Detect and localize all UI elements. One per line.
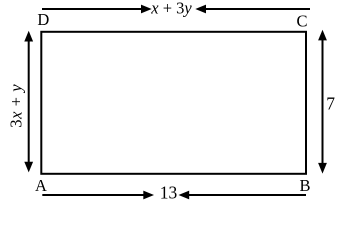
right dimension arrow shaft — [322, 37, 324, 165]
bottom dimension right arrow shaft — [189, 194, 306, 196]
svg-text:C: C — [296, 11, 307, 30]
left dimension arrow shaft — [28, 38, 30, 164]
svg-text:x + 3y: x + 3y — [150, 0, 192, 17]
svg-text:B: B — [299, 176, 310, 195]
bottom dimension left arrow shaft — [42, 194, 145, 196]
bottom dimension right arrowhead (points left) — [179, 191, 190, 200]
top dimension right arrow shaft — [205, 8, 310, 10]
top dimension right arrowhead (points left) — [195, 5, 206, 14]
svg-text:A: A — [35, 176, 47, 195]
left dimension top arrowhead (points up) — [24, 31, 33, 42]
right dimension top arrowhead (points up) — [318, 30, 327, 41]
top dimension left arrowhead (points right) — [141, 5, 152, 14]
svg-text:D: D — [37, 10, 49, 29]
svg-text:3x + y: 3x + y — [7, 84, 26, 128]
bottom dimension left arrowhead (points right) — [143, 191, 154, 200]
top dimension left arrow shaft — [42, 8, 142, 10]
svg-text:7: 7 — [326, 93, 335, 113]
left dimension bottom arrowhead (points down) — [24, 162, 33, 173]
right dimension bottom arrowhead (points down) — [318, 163, 327, 174]
svg-text:13: 13 — [160, 183, 178, 203]
rectangle ABCD — [41, 32, 306, 174]
